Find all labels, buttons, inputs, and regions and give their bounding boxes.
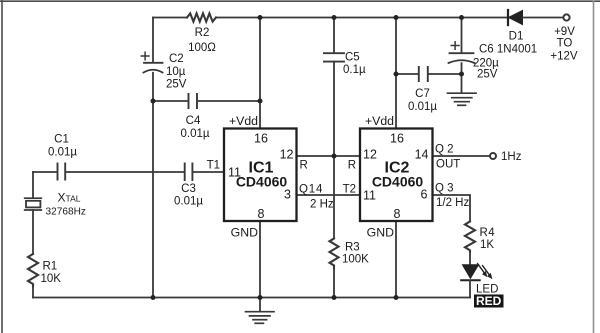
svg-text:C4: C4 — [186, 115, 201, 127]
capacitor C7 — [419, 67, 428, 81]
svg-text:1Hz: 1Hz — [501, 151, 522, 163]
wire C7 branch right — [429, 73, 462, 75]
svg-text:+Vdd: +Vdd — [229, 114, 258, 128]
svg-text:0.01µ: 0.01µ — [48, 147, 77, 159]
svg-text:C5: C5 — [345, 52, 360, 64]
svg-text:R2: R2 — [195, 27, 210, 39]
capacitor C2 (electrolytic) — [141, 52, 162, 72]
capacitor C6 (electrolytic) — [449, 42, 475, 63]
wire top rail left of R2 — [153, 17, 187, 19]
svg-text:8: 8 — [394, 207, 401, 221]
IC1 box — [224, 129, 297, 222]
wire C5 to R3 (R net vertical) — [333, 62, 335, 239]
svg-text:0.1µ: 0.1µ — [343, 64, 366, 76]
wire C6 to ground — [461, 63, 463, 92]
svg-text:8: 8 — [258, 207, 265, 221]
wire R net IC1 pin12 to IC2 pin12 — [297, 155, 361, 157]
svg-text:R: R — [348, 160, 356, 172]
svg-text:32768Hz: 32768Hz — [46, 207, 86, 218]
svg-text:R4: R4 — [480, 227, 496, 239]
svg-text:1/2 Hz: 1/2 Hz — [436, 197, 469, 209]
svg-text:T2: T2 — [343, 184, 356, 196]
svg-text:TO: TO — [557, 38, 573, 50]
svg-text:16: 16 — [390, 132, 404, 146]
svg-text:14: 14 — [415, 148, 429, 162]
svg-text:10K: 10K — [41, 273, 62, 285]
svg-text:25V: 25V — [477, 69, 498, 81]
svg-text:11: 11 — [363, 189, 376, 203]
wire Q3 to R4 — [433, 195, 471, 222]
wire bottom rail — [33, 297, 470, 299]
svg-text:0.01µ: 0.01µ — [408, 101, 437, 113]
wire +Vdd IC2 — [395, 18, 397, 129]
svg-text:XTAL: XTAL — [58, 191, 81, 205]
wire R3 to bottom rail — [333, 269, 335, 298]
diode D1 — [508, 10, 523, 25]
svg-text:C1: C1 — [54, 134, 69, 146]
wire Q2 output — [433, 155, 490, 157]
svg-text:10µ: 10µ — [166, 66, 186, 78]
svg-text:2 Hz: 2 Hz — [310, 199, 334, 211]
wire C4 branch left — [153, 100, 188, 102]
capacitor C4 — [189, 94, 198, 108]
svg-text:Q 2: Q 2 — [435, 144, 454, 156]
wire C4 branch right — [198, 100, 260, 102]
svg-text:12: 12 — [280, 148, 294, 162]
wire left rail (top rail to C2) — [152, 18, 154, 63]
svg-text:C7: C7 — [415, 88, 430, 100]
label RED badge — [474, 295, 504, 308]
svg-text:Q 3: Q 3 — [435, 183, 454, 195]
IC2 box — [360, 129, 433, 222]
wire T1 line C3 to IC1 pin 11 — [193, 171, 224, 173]
svg-text:12: 12 — [363, 148, 377, 162]
resistor R4 — [465, 222, 475, 252]
wire +Vdd IC1 — [259, 18, 261, 129]
wire R1 to bottom rail — [32, 287, 34, 298]
svg-text:CD4060: CD4060 — [236, 174, 288, 190]
resistor R1 — [28, 254, 38, 287]
wire C6 top — [461, 18, 463, 53]
svg-text:16: 16 — [254, 132, 268, 146]
resistor R3 — [330, 239, 339, 269]
terminal 1Hz (open circle) — [490, 153, 496, 159]
terminal +9V (open circle) — [563, 14, 569, 20]
capacitor C1 — [58, 164, 66, 180]
svg-text:1K: 1K — [480, 239, 494, 251]
wire C7 branch left — [396, 73, 418, 75]
wire T1 line C1 to C3 — [66, 171, 184, 173]
ground (below C6) — [448, 93, 477, 105]
wire T1 line left of C1 — [33, 171, 57, 173]
wire R4 to LED — [469, 252, 471, 265]
svg-text:+Vdd: +Vdd — [365, 114, 394, 128]
crystal XTAL 32768Hz — [25, 198, 42, 210]
svg-text:+12V: +12V — [550, 51, 578, 63]
LED D2 — [461, 264, 491, 281]
wire IC1 GND to bottom rail — [259, 221, 261, 298]
svg-text:C2: C2 — [169, 53, 184, 65]
svg-text:0.01µ: 0.01µ — [174, 196, 203, 208]
wire top rail D1 to terminal — [523, 17, 564, 19]
svg-text:OUT: OUT — [436, 159, 460, 171]
svg-text:C6 1N4001: C6 1N4001 — [479, 44, 537, 56]
svg-text:R: R — [300, 160, 308, 172]
wire LED to bottom rail — [469, 281, 471, 298]
svg-text:0.01µ: 0.01µ — [180, 128, 209, 140]
svg-text:D1: D1 — [509, 31, 524, 43]
svg-text:100K: 100K — [342, 254, 369, 266]
wire top rail R2 to D1 — [216, 17, 507, 19]
svg-text:R3: R3 — [345, 242, 360, 254]
wire left rail (C2 to bottom rail) — [152, 73, 154, 298]
capacitor C5 — [324, 53, 344, 61]
svg-text:Q14: Q14 — [299, 184, 323, 196]
wire C5 top — [333, 18, 335, 54]
svg-text:+9V: +9V — [554, 26, 575, 38]
wire Q14 to T2 — [297, 194, 361, 196]
svg-text:R1: R1 — [43, 261, 58, 273]
wire ground stub below bottom rail — [259, 298, 261, 312]
svg-text:25V: 25V — [166, 79, 187, 91]
capacitor C3 — [185, 164, 193, 181]
svg-text:T1: T1 — [207, 160, 220, 172]
svg-text:GND: GND — [367, 226, 394, 240]
resistor R2 — [187, 13, 216, 21]
wire crystal branch top — [32, 172, 34, 198]
wire IC2 GND to bottom rail — [395, 221, 397, 298]
svg-text:C3: C3 — [181, 183, 196, 195]
svg-text:CD4060: CD4060 — [372, 174, 424, 190]
ground (bottom rail) — [246, 312, 275, 324]
svg-text:100Ω: 100Ω — [188, 42, 216, 54]
svg-text:GND: GND — [231, 226, 258, 240]
wire crystal to R1 — [32, 210, 34, 254]
svg-text:RED: RED — [476, 294, 502, 308]
